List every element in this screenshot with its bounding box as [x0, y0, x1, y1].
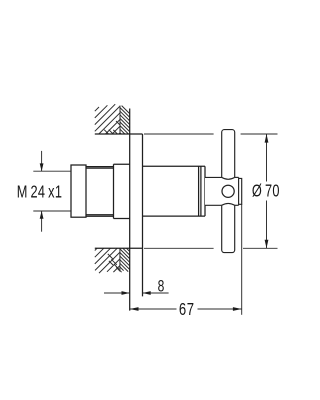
svg-text:67: 67 — [179, 300, 195, 319]
svg-text:8: 8 — [158, 278, 165, 296]
svg-text:Ø 70: Ø 70 — [252, 182, 280, 201]
svg-text:M 24 x1: M 24 x1 — [17, 182, 62, 201]
